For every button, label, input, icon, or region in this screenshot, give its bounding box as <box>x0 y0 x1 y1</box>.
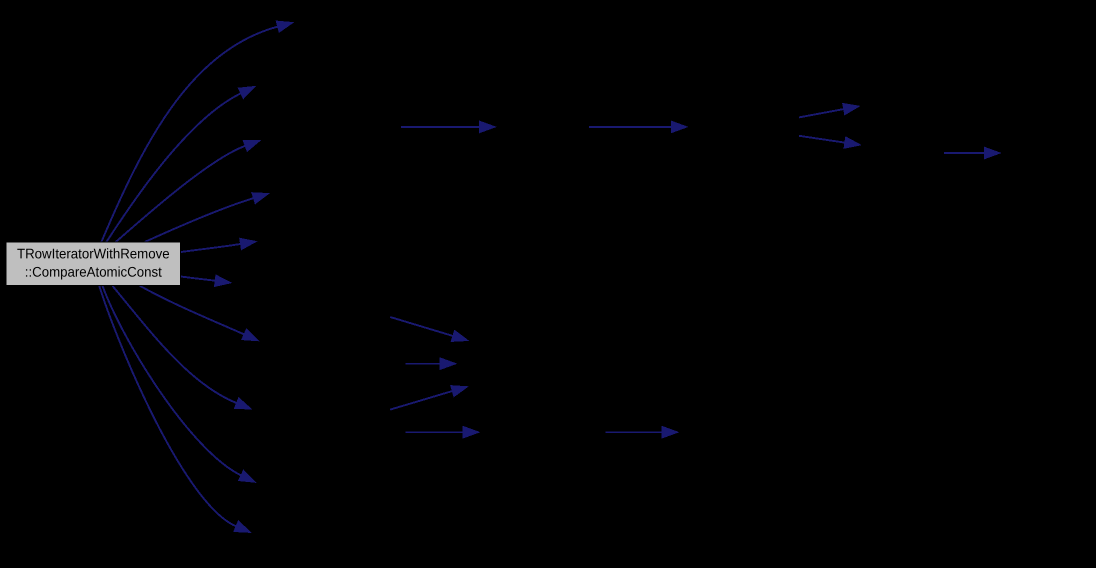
edge 5: curved arrow from main node <box>181 238 257 252</box>
edge 6: curved arrow from main node <box>181 275 231 287</box>
svg-text:TRowIteratorWithRemove: TRowIteratorWithRemove <box>17 245 170 261</box>
edge 18: straight arrow between hidden nodes <box>390 385 468 409</box>
edge 1: curved arrow from main node <box>101 21 293 242</box>
edge 10: curved arrow from main node <box>99 286 251 533</box>
edge 15: straight arrow between hidden nodes <box>944 147 1001 159</box>
edge 20: straight arrow between hidden nodes <box>606 426 679 438</box>
edge 7: curved arrow from main node <box>140 286 259 341</box>
edge 14: straight arrow between hidden nodes <box>799 136 861 149</box>
edge 12: straight arrow between hidden nodes <box>589 121 688 133</box>
edge 2: curved arrow from main node <box>106 86 255 242</box>
edge 11: straight arrow between hidden nodes <box>401 121 496 133</box>
edge 17: straight arrow between hidden nodes <box>406 358 457 370</box>
node TRowIteratorWithRemove::CompareAtomicConst (main node box) <box>6 242 181 286</box>
edge 4: curved arrow from main node <box>145 193 269 243</box>
edge 8: curved arrow from main node <box>112 286 251 409</box>
edge 19: straight arrow between hidden nodes <box>406 426 480 438</box>
edge 13: straight arrow between hidden nodes <box>799 103 860 117</box>
edge 16: straight arrow between hidden nodes <box>390 317 468 342</box>
edge 3: curved arrow from main node <box>116 140 261 242</box>
svg-text:::CompareAtomicConst: ::CompareAtomicConst <box>25 264 162 280</box>
edge 9: curved arrow from main node <box>103 286 256 483</box>
